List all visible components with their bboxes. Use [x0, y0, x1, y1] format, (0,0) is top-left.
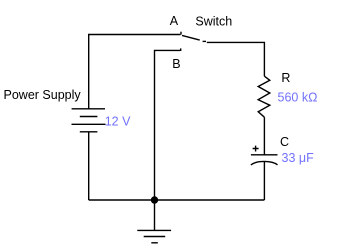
svg-text:C: C	[280, 135, 289, 149]
svg-text:Switch: Switch	[195, 14, 232, 28]
svg-text:R: R	[281, 71, 290, 85]
svg-text:33 μF: 33 μF	[282, 151, 315, 165]
svg-text:560 kΩ: 560 kΩ	[278, 90, 318, 104]
svg-text:12 V: 12 V	[105, 114, 131, 128]
svg-text:Power Supply: Power Supply	[4, 88, 82, 102]
svg-text:A: A	[170, 14, 179, 28]
svg-text:B: B	[172, 57, 180, 71]
